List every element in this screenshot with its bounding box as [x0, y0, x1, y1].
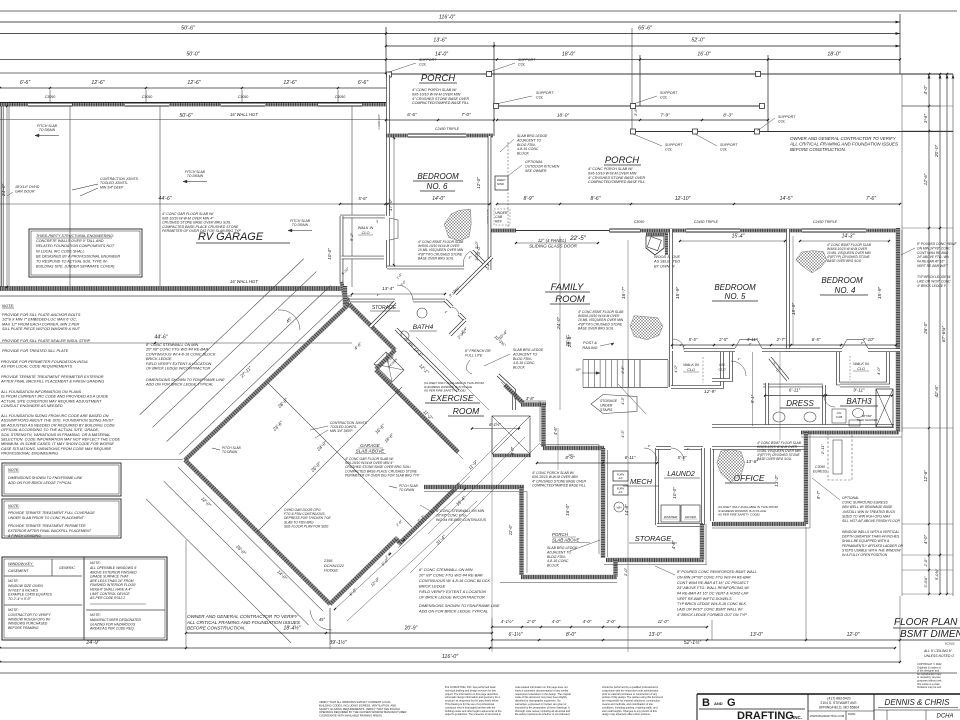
svg-text:CONTINUOUS W/ 4-8-16 CONC BLOC: CONTINUOUS W/ 4-8-16 CONC BLOCK [419, 578, 491, 583]
svg-text:warranties, expressed or impli: warranties, expressed or implied, are gi… [515, 702, 567, 706]
svg-text:conjunction with the respectiv: conjunction with the respective code adm… [602, 688, 658, 692]
svg-text:4'-0″: 4'-0″ [876, 366, 881, 375]
svg-text:REF: REF [495, 219, 503, 223]
svg-text:distorted by reprographic equi: distorted by reprographic equipment. No [515, 699, 561, 703]
svg-text:FLOOR PLAN: FLOOR PLAN [894, 617, 958, 628]
svg-text:EGRESS: EGRESS [813, 470, 828, 474]
svg-text:BLOCK: BLOCK [513, 366, 526, 370]
svg-text:2'-11″: 2'-11″ [820, 443, 825, 454]
svg-text:6'-11″: 6'-11″ [789, 388, 801, 393]
svg-text:BATH3: BATH3 [846, 397, 872, 406]
svg-text:50'-6″: 50'-6″ [181, 26, 196, 32]
svg-text:COL: COL [419, 63, 426, 67]
svg-text:EXERCISE: EXERCISE [431, 393, 474, 403]
svg-text:COL: COL [720, 148, 727, 152]
svg-text:7'-0″: 7'-0″ [461, 112, 471, 118]
svg-text:PROVIDE TERMITE TREATMENT PERI: PROVIDE TERMITE TREATMENT PERIMETER EXTE… [1, 375, 104, 379]
svg-text:BLDG FDN-: BLDG FDN- [513, 357, 533, 361]
svg-text:BEDROOM: BEDROOM [714, 283, 756, 292]
svg-text:SLIDING GLASS DOOR: SLIDING GLASS DOOR [529, 244, 578, 249]
svg-text:8″ POURED CONC REINFORCED BSMT: 8″ POURED CONC REINFORCED BSMT WALL [677, 570, 757, 574]
svg-text:DIMENSIONS SHOWN TO FDN/FRAME: DIMENSIONS SHOWN TO FDN/FRAME LINE [146, 378, 225, 382]
svg-text:ROOM: ROOM [453, 406, 480, 416]
svg-text:ROOM: ROOM [555, 294, 585, 305]
svg-text:SIZED TO WIN RGH OPG MAX: SIZED TO WIN RGH OPG MAX [842, 514, 891, 518]
svg-text:BEFORE FRAMING: BEFORE FRAMING [8, 626, 39, 630]
svg-text:POST &: POST & [583, 341, 597, 345]
svg-text:CONT W/#4 RE-BAR: CONT W/#4 RE-BAR [917, 251, 949, 255]
svg-text:52'-1½″: 52'-1½″ [684, 639, 702, 646]
svg-text:18'-0″: 18'-0″ [827, 52, 840, 58]
svg-text:18'-0″: 18'-0″ [562, 52, 575, 58]
svg-text:PROVIDE FOR SILL PLATE ANCHOR: PROVIDE FOR SILL PLATE ANCHOR BOLTS [2, 313, 81, 317]
svg-text:52'-0″: 52'-0″ [691, 38, 704, 44]
svg-text:MINIMUM. IN SOME CASES, IT MAY: MINIMUM. IN SOME CASES, IT MAY SHOW CODE… [1, 442, 114, 446]
svg-text:ON MIN 24″X8″ CONC FTG W/3-#4: ON MIN 24″X8″ CONC FTG W/3-#4 RE-BAR [677, 575, 751, 579]
svg-text:4″ BRICK LEDGE FORMED OUT ON T: 4″ BRICK LEDGE FORMED OUT ON TYP [677, 613, 747, 617]
svg-text:structure as requested by the: structure as requested by the party list… [445, 699, 499, 703]
svg-text:#4 RE-BAR AT 16″ OC VERT & HOR: #4 RE-BAR AT 16″ OC VERT & HORZ-LAP [677, 592, 749, 596]
svg-text:14'-3″: 14'-3″ [842, 234, 855, 240]
svg-text:& FINISH GRADING: & FINISH GRADING [8, 534, 41, 538]
svg-text:IN A FULLY OPEN POSITION: IN A FULLY OPEN POSITION [842, 553, 888, 557]
svg-text:9'-11″: 9'-11″ [853, 388, 865, 393]
svg-text:G: G [727, 697, 736, 709]
svg-text:WH: WH [617, 506, 623, 510]
svg-text:12'-6″: 12'-6″ [91, 80, 104, 86]
svg-text:CLO: CLO [362, 231, 370, 235]
svg-text:2'-7″: 2'-7″ [776, 337, 786, 342]
svg-text:4″ CONC PORCH SLAB W/: 4″ CONC PORCH SLAB W/ [412, 88, 457, 92]
svg-text:6X6-10/10 W-W-M OVER MIN: 6X6-10/10 W-W-M OVER MIN [412, 92, 461, 96]
svg-text:ACTUAL SITE CONDITION MAY REQU: ACTUAL SITE CONDITION MAY REQUIRE ADJUST… [0, 399, 102, 403]
svg-text:19'-9″: 19'-9″ [791, 303, 797, 316]
svg-text:SILL HGT-44″ ABOVE FINISH FLOO: SILL HGT-44″ ABOVE FINISH FLOOR [842, 519, 901, 523]
svg-text:4'-0″: 4'-0″ [923, 535, 928, 545]
svg-text:STEPS USABLE WITH THE WINDOW: STEPS USABLE WITH THE WINDOW [842, 548, 901, 552]
svg-text:1/2″ø X MIN 7″ EMBEDED-LOC MA: 1/2″ø X MIN 7″ EMBEDED-LOC MAX 6' OC, [2, 318, 77, 322]
svg-text:NOTE:: NOTE: [8, 504, 20, 508]
svg-text:LAID OR W/10″ CONC BSMT WALL W: LAID OR W/10″ CONC BSMT WALL W/ [677, 607, 743, 611]
svg-text:SUPPORT: SUPPORT [419, 58, 437, 62]
svg-text:12'-6″: 12'-6″ [923, 173, 928, 185]
svg-text:15'-9″: 15'-9″ [877, 287, 883, 300]
svg-text:ALL FOUNDATION INFORMATION ON: ALL FOUNDATION INFORMATION ON PLANS [0, 390, 82, 394]
svg-text:8″ CONC STEMWALL ON MIN: 8″ CONC STEMWALL ON MIN [146, 343, 199, 347]
svg-text:3'-6″: 3'-6″ [923, 114, 928, 124]
svg-text:13'-0″: 13'-0″ [750, 632, 763, 638]
svg-text:thorough code review, includin: thorough code review, including all stru… [515, 709, 571, 713]
svg-text:12'-0″: 12'-0″ [847, 632, 860, 638]
svg-text:BRICK LEDGE: BRICK LEDGE [146, 357, 172, 361]
svg-text:2'-0″: 2'-0″ [923, 558, 928, 568]
svg-text:FIELD VERIFY EXTENT & LOCATION: FIELD VERIFY EXTENT & LOCATION [419, 589, 486, 594]
svg-text:TO RESPOND TO ACTUAL SOIL TYPE: TO RESPOND TO ACTUAL SOIL TYPE IN [36, 260, 107, 264]
svg-text:42'-6″: 42'-6″ [934, 385, 940, 398]
svg-text:(417) 883-5420: (417) 883-5420 [827, 697, 850, 701]
svg-text:4'-3″: 4'-3″ [621, 397, 625, 405]
svg-text:4'-8″: 4'-8″ [671, 540, 676, 549]
svg-text:SAFETY GLAZING REQUIREMENTS.: SAFETY GLAZING REQUIREMENTS. VERIFY THAT… [319, 707, 400, 711]
svg-text:MAX 12″ FROM EACH CORNER, MIN: MAX 12″ FROM EACH CORNER, MIN 2 PER [2, 322, 80, 326]
svg-text:intended by the preparation of: intended by the preparation of these dra… [515, 705, 570, 709]
svg-text:DIMENSIONS SHOWN TO FDN/FRAME: DIMENSIONS SHOWN TO FDN/FRAME LINE [419, 603, 500, 608]
svg-text:2'-5″: 2'-5″ [718, 337, 728, 342]
svg-text:RAILING: RAILING [582, 346, 597, 350]
svg-text:DENNIS & CHRIS: DENNIS & CHRIS [885, 698, 951, 707]
svg-text:PORCH: PORCH [605, 155, 639, 166]
svg-text:SELECTION. CODE INFORMATION MA: SELECTION. CODE INFORMATION MAY NOT REFL… [1, 438, 120, 442]
svg-text:C3050: C3050 [142, 95, 153, 99]
svg-text:BUILDING CODES, INCLUDING EGRE: BUILDING CODES, INCLUDING EGRESS, VENTIL… [319, 703, 396, 707]
svg-text:GENERIC: GENERIC [59, 566, 75, 570]
svg-text:NO. 6: NO. 6 [427, 182, 448, 191]
svg-text:means and methods, and coordin: means and methods, and coordination of s… [602, 702, 653, 706]
svg-text:UNDER: UNDER [600, 403, 613, 407]
svg-text:3'-8″: 3'-8″ [526, 396, 535, 401]
svg-text:BEFORE CONSTRUCTION.: BEFORE CONSTRUCTION. [790, 147, 846, 152]
svg-text:4-8-16 CONC: 4-8-16 CONC [513, 361, 535, 365]
svg-text:6″ CONC STEMWALL ON MIN: 6″ CONC STEMWALL ON MIN [436, 509, 485, 513]
svg-text:BEDROOM: BEDROOM [821, 276, 863, 285]
svg-text:PERMANENTLY AFFIXED LADDER OR: PERMANENTLY AFFIXED LADDER OR [842, 544, 903, 548]
svg-text:10'-0″: 10'-0″ [327, 248, 332, 260]
svg-text:C3050: C3050 [238, 95, 249, 99]
svg-text:COL: COL [518, 63, 525, 67]
svg-text:3'-6″: 3'-6″ [621, 366, 625, 374]
svg-text:8'-0″: 8'-0″ [566, 632, 576, 638]
svg-text:4'-1½″: 4'-1½″ [501, 619, 514, 624]
svg-text:NO. 4: NO. 4 [835, 286, 856, 295]
svg-text:116'-0″: 116'-0″ [439, 15, 456, 21]
svg-text:CONTINUOUS W/ 4-8-16 CONC BLOC: CONTINUOUS W/ 4-8-16 CONC BLOCK [146, 352, 216, 356]
svg-text:65'-6″: 65'-6″ [638, 26, 653, 32]
svg-text:7'-10″: 7'-10″ [863, 337, 875, 342]
svg-text:OWNER AND GENERAL CONTRACTOR T: OWNER AND GENERAL CONTRACTOR TO VERIFY [790, 136, 897, 141]
svg-text:5'-0″: 5'-0″ [475, 241, 479, 249]
svg-text:C3050: C3050 [335, 95, 346, 99]
svg-text:PROVIDE FOR SILL PLATE SEALER: PROVIDE FOR SILL PLATE SEALER INSUL STRI… [2, 339, 91, 343]
svg-text:OPENINGS REQUIRED BY THE CHOSE: OPENINGS REQUIRED BY THE CHOSEN WINDOW M… [319, 710, 406, 714]
svg-text:design may adversely affect ot: design may adversely affect other portio… [602, 712, 651, 716]
svg-text:Violators may be sub: Violators may be sub [917, 685, 942, 689]
svg-text:4″ CRUSHED STONE BASE OVER: 4″ CRUSHED STONE BASE OVER [588, 176, 646, 180]
svg-text:project. The information on t: project. The information on this page de… [445, 692, 499, 696]
svg-text:are responsible for material s: are responsible for material selections,… [602, 699, 661, 703]
svg-text:8'-0″: 8'-0″ [565, 455, 575, 460]
svg-text:14'-8″: 14'-8″ [624, 504, 629, 516]
svg-text:BLOCK: BLOCK [547, 564, 560, 568]
svg-text:16'-0″: 16'-0″ [697, 52, 710, 58]
svg-text:C2450 TRIPLE: C2450 TRIPLE [694, 220, 719, 224]
svg-text:SUPPORT: SUPPORT [720, 143, 738, 147]
svg-text:3'-6″: 3'-6″ [633, 107, 638, 116]
svg-text:NOTE:: NOTE: [90, 561, 101, 565]
svg-text:BUILDING SITE. (UNDER SEPARATE: BUILDING SITE. (UNDER SEPARATE COVER) [36, 265, 115, 269]
svg-text:2'-0″: 2'-0″ [623, 567, 628, 577]
svg-text:CLO: CLO [687, 368, 695, 372]
svg-text:CLO: CLO [857, 367, 865, 371]
svg-text:24'-0″: 24'-0″ [1, 184, 7, 198]
svg-text:FIELD VERIFY EXTENT & LOCATION: FIELD VERIFY EXTENT & LOCATION [146, 362, 212, 366]
svg-text:2'-0″: 2'-0″ [526, 619, 536, 624]
svg-text:39'-1½″: 39'-1½″ [329, 639, 347, 646]
svg-text:7'-4″: 7'-4″ [513, 391, 518, 400]
svg-text:ADD ON FOR BRICK LEDGE TYPICAL: ADD ON FOR BRICK LEDGE TYPICAL [7, 481, 72, 485]
svg-text:OPTIONAL: OPTIONAL [525, 160, 543, 164]
svg-text:14'-5″: 14'-5″ [780, 196, 793, 202]
svg-text:RELATED FOUNDATION COMPONENTS: RELATED FOUNDATION COMPONENTS NOT [36, 244, 115, 248]
svg-text:SCALE:: SCALE: [945, 642, 956, 646]
svg-text:STORAGE: STORAGE [372, 305, 397, 311]
svg-text:15'-4″: 15'-4″ [732, 234, 745, 240]
svg-text:WALK IN: WALK IN [853, 362, 869, 366]
svg-text:GARAGE: GARAGE [360, 443, 381, 448]
svg-text:FULL LITE: FULL LITE [465, 354, 483, 358]
svg-text:6'-6″: 6'-6″ [20, 80, 30, 86]
svg-text:UNDER SLAB PRIOR TO CONC PLACE: UNDER SLAB PRIOR TO CONC PLACEMENT [8, 516, 85, 520]
svg-text:4'-0″: 4'-0″ [923, 85, 928, 95]
svg-text:contractor who is thoroughly f: contractor who is thoroughly familiar wi… [445, 705, 496, 709]
svg-text:NOTE:: NOTE: [8, 468, 20, 472]
svg-text:BEDROOM: BEDROOM [417, 172, 459, 181]
svg-text:BRICK LEDGE: BRICK LEDGE [419, 584, 446, 589]
svg-text:20″ X8″ CONC FTG W/2-#4 RE-BAR: 20″ X8″ CONC FTG W/2-#4 RE-BAR [145, 348, 208, 352]
svg-text:WWW.BGDRAFTING.COM: WWW.BGDRAFTING.COM [810, 714, 845, 718]
svg-text:13'-2″: 13'-2″ [774, 475, 779, 487]
svg-text:PROVIDE TERMITE TREATMENT FULL: PROVIDE TERMITE TREATMENT FULL COVERAGE [8, 511, 95, 515]
svg-text:9'-7″: 9'-7″ [816, 490, 821, 499]
svg-text:ADJACENT TO: ADJACENT TO [546, 550, 572, 554]
svg-text:BASE OVER BRG SOIL: BASE OVER BRG SOIL [418, 256, 454, 260]
svg-text:16'-0″: 16'-0″ [565, 504, 570, 516]
svg-text:8″ POURED CONC REINF: 8″ POURED CONC REINF [917, 242, 957, 246]
svg-text:ADJACENT TO: ADJACENT TO [512, 352, 538, 356]
svg-text:C2450 TRIPLE: C2450 TRIPLE [813, 220, 838, 224]
svg-text:13'-4″: 13'-4″ [382, 286, 394, 291]
svg-text:12'-9″: 12'-9″ [704, 389, 716, 394]
svg-text:11'-6″: 11'-6″ [508, 524, 513, 535]
svg-text:ADD ON FOR BRICK LEDGE TYPICAL: ADD ON FOR BRICK LEDGE TYPICAL [418, 608, 488, 613]
svg-text:SLAB ABOVE: SLAB ABOVE [552, 538, 579, 543]
svg-text:AS PER CODE R312.2: AS PER CODE R312.2 [89, 596, 125, 600]
svg-text:6X6-10/10 W-W-M OVER MIN: 6X6-10/10 W-W-M OVER MIN [588, 171, 637, 175]
svg-text:ALL CRITICAL FRAMING AND FOUND: ALL CRITICAL FRAMING AND FOUNDATION ISSU… [789, 141, 898, 146]
svg-text:BASE OVER BRG SOIL: BASE OVER BRG SOIL [757, 457, 792, 461]
svg-text:IN LOCAL IRC CODE SHALL: IN LOCAL IRC CODE SHALL [36, 249, 85, 253]
svg-text:PROVIDE FOR PERIMETER FOUNDATI: PROVIDE FOR PERIMETER FOUNDATION INSUL [1, 360, 88, 364]
svg-text:TO DRAIN: TO DRAIN [399, 488, 415, 492]
svg-text:4-8-16 CONC: 4-8-16 CONC [517, 147, 539, 151]
svg-text:CONC SURROUND EGRESS: CONC SURROUND EGRESS [842, 501, 888, 505]
svg-text:26'-0″: 26'-0″ [923, 322, 928, 335]
svg-text:#4 RE-BAR AT 16″: #4 RE-BAR AT 16″ [917, 260, 945, 264]
svg-text:WALK IN: WALK IN [683, 363, 699, 367]
svg-text:16' WALL HGT: 16' WALL HGT [230, 112, 258, 117]
svg-text:COL: COL [660, 96, 667, 100]
svg-text:18'-4½″: 18'-4½″ [284, 625, 301, 632]
svg-text:AND: AND [714, 701, 723, 706]
svg-text:AREAS AS PER CODE REQ.: AREAS AS PER CODE REQ. [89, 627, 135, 631]
svg-text:VERT RE-BAR W/FT: VERT RE-BAR W/FT [917, 264, 949, 268]
svg-text:BLDG FDN-: BLDG FDN- [517, 143, 537, 147]
svg-text:LAID OR W/10″ CONC: LAID OR W/10″ CONC [917, 279, 951, 283]
svg-text:20″ X8″ CONC FTG W/2-#4 RE-BAR: 20″ X8″ CONC FTG W/2-#4 RE-BAR [418, 573, 483, 578]
svg-text:FAMILY: FAMILY [551, 282, 584, 293]
svg-text:6'-6″: 6'-6″ [358, 80, 368, 86]
svg-text:PROFESSIONAL ENGINEERING: PROFESSIONAL ENGINEERING [1, 452, 58, 456]
svg-text:12'-6″: 12'-6″ [923, 470, 928, 482]
svg-text:SLAB ABOVE: SLAB ABOVE [356, 449, 386, 454]
svg-text:PORCH: PORCH [552, 532, 569, 537]
svg-text:4'-5″: 4'-5″ [621, 430, 625, 438]
svg-text:building codes and other legal: building codes and other legal requireme… [445, 709, 502, 713]
svg-text:-INSTALL WIN IN TREATED BUCK: -INSTALL WIN IN TREATED BUCK [842, 510, 896, 514]
svg-text:50'-0″: 50'-0″ [186, 52, 199, 58]
svg-text:C3050: C3050 [634, 220, 645, 224]
svg-text:TO 2'-4″ x 5'-0″: TO 2'-4″ x 5'-0″ [8, 597, 31, 601]
svg-text:8'-3″: 8'-3″ [723, 113, 733, 119]
svg-text:VERIFY THAT ALL WINDOWS SATISF: VERIFY THAT ALL WINDOWS SATISFY CURRENT … [319, 700, 391, 704]
svg-text:AFTER FINAL BACKFILL PLACEMENT: AFTER FINAL BACKFILL PLACEMENT & FINISH … [0, 380, 104, 384]
svg-text:6'-1½″: 6'-1½″ [489, 422, 501, 427]
svg-text:EXTERIOR AFTER FINAL BACKFILL: EXTERIOR AFTER FINAL BACKFILL PLACEMENT [8, 529, 92, 533]
svg-text:18'-0″: 18'-0″ [557, 113, 570, 119]
svg-text:imply a consistent documentati: imply a consistent documentation of any … [515, 688, 569, 692]
svg-text:67'-6¾″: 67'-6¾″ [941, 326, 947, 343]
svg-text:SINK: SINK [497, 182, 505, 186]
svg-text:LIN: LIN [719, 363, 725, 367]
svg-text:DRYER: DRYER [685, 515, 696, 519]
svg-text:CURB OUT: CURB OUT [377, 114, 381, 129]
svg-text:SLAB BRG LEDGE: SLAB BRG LEDGE [513, 348, 544, 352]
svg-text:NOTE:: NOTE: [8, 608, 19, 612]
svg-text:A/C: A/C [617, 490, 622, 494]
svg-text:life-safety requirements wheth: life-safety requirements whether or not … [515, 712, 570, 716]
svg-text:WOOD STOVE: WOOD STOVE [654, 255, 681, 259]
svg-text:12° (4 PANEL): 12° (4 PANEL) [538, 238, 567, 243]
svg-text:WASHER: WASHER [664, 515, 678, 519]
svg-text:TO DRAIN: TO DRAIN [292, 223, 309, 227]
svg-text:AS SELECTED: AS SELECTED [653, 260, 680, 264]
svg-text:OPTIONAL: OPTIONAL [842, 496, 859, 500]
svg-text:NOTE:: NOTE: [2, 303, 14, 308]
svg-text:NOTE:: NOTE: [90, 613, 101, 617]
svg-text:AS PER FIRE SAFETY CODE): AS PER FIRE SAFETY CODE) [717, 513, 760, 517]
svg-text:FURN: FURN [617, 473, 624, 477]
svg-text:12'-6″: 12'-6″ [187, 80, 200, 86]
svg-text:requirement elsewhere in the d: requirement elsewhere in the design. The… [515, 692, 571, 696]
svg-text:45°: 45° [319, 617, 326, 622]
svg-text:TYP BRICK LEDGE W/4-8-16 CONC: TYP BRICK LEDGE W/4-8-16 CONC BLK [677, 602, 746, 606]
svg-text:technical drafting and design: technical drafting and design services f… [445, 688, 497, 692]
svg-text:4″ BRICK LEDGE F: 4″ BRICK LEDGE F [917, 284, 947, 288]
svg-text:UP: UP [576, 368, 581, 372]
svg-text:PERIMETER OF OVER DIG FOR SLAB: PERIMETER OF OVER DIG FOR SLAB BRG TYP [162, 229, 242, 233]
svg-text:CLO: CLO [719, 368, 726, 372]
svg-text:24'-0″: 24'-0″ [556, 317, 562, 331]
svg-text:5'-5″: 5'-5″ [678, 455, 687, 460]
svg-text:C3050: C3050 [815, 465, 825, 469]
svg-text:15'-9″: 15'-9″ [675, 287, 681, 300]
svg-text:STAIRS: STAIRS [600, 408, 613, 412]
svg-text:scale of this document may hav: scale of this document may have been sli… [515, 695, 568, 699]
svg-text:3'-0″: 3'-0″ [475, 253, 479, 261]
svg-text:SLAB BRG LEDGE: SLAB BRG LEDGE [517, 134, 548, 138]
svg-text:SPRINGFIELD, MO 65804: SPRINGFIELD, MO 65804 [819, 706, 859, 710]
svg-text:SUPPORT: SUPPORT [778, 115, 796, 119]
svg-text:OFFICIAL ACCORDING TO THE ACTU: OFFICIAL ACCORDING TO THE ACTUAL SITE, G… [1, 428, 99, 432]
svg-text:4″ CONC PORCH SLAB W/: 4″ CONC PORCH SLAB W/ [588, 167, 633, 171]
svg-text:ALL FOUNDATION SIZING FROM IRC: ALL FOUNDATION SIZING FROM IRC CODE ARE … [0, 414, 109, 418]
svg-text:A/C: A/C [617, 476, 622, 480]
svg-text:SOIL STRENGTH, VARIATIONS IN F: SOIL STRENGTH, VARIATIONS IN FRAMING, OR… [1, 433, 110, 437]
svg-text:DCHA1G22: DCHA1G22 [324, 564, 345, 568]
svg-text:BE DESIGNED BY A PROFESSIONAL: BE DESIGNED BY A PROFESSIONAL ENGINEER [36, 254, 121, 258]
svg-text:AS PER LOCAL CODE REQUIREMENTS: AS PER LOCAL CODE REQUIREMENTS [0, 365, 72, 369]
svg-text:COL: COL [778, 120, 785, 124]
svg-text:OUTDOOR KITCHEN: OUTDOOR KITCHEN [525, 164, 560, 168]
svg-text:13'-0″: 13'-0″ [649, 632, 662, 638]
svg-text:COORDINATE WITH AVAILABLE FRAM: COORDINATE WITH AVAILABLE FRAMING AREAS. [319, 714, 383, 718]
svg-text:7'-6″: 7'-6″ [866, 196, 876, 202]
svg-text:INC.: INC. [793, 715, 802, 720]
svg-text:6'-5″: 6'-5″ [812, 337, 821, 342]
svg-text:FURN: FURN [617, 487, 624, 491]
svg-text:5'-2″: 5'-2″ [349, 232, 354, 241]
svg-text:24″ ABOVE FTG- WALL REINFORCI: 24″ ABOVE FTG- WALL REINFORCING W/ [676, 586, 750, 590]
svg-text:COL: COL [665, 148, 672, 152]
svg-text:DRESS: DRESS [786, 399, 814, 408]
svg-text:9'-0″: 9'-0″ [510, 446, 515, 455]
svg-text:TO DRAIN: TO DRAIN [222, 450, 238, 454]
svg-text:PORCH: PORCH [421, 73, 455, 84]
svg-text:BLOCK: BLOCK [517, 152, 530, 156]
svg-text:ASSUMPTIONS ABOUT THE SITE. FO: ASSUMPTIONS ABOUT THE SITE. FOUNDATION S… [0, 419, 114, 423]
svg-text:BLDG FDN-: BLDG FDN- [547, 555, 567, 559]
svg-text:4'-0″: 4'-0″ [552, 619, 561, 624]
svg-text:MIN 3/4″ DEEP: MIN 3/4″ DEEP [100, 185, 124, 189]
svg-text:11'-0″: 11'-0″ [658, 619, 669, 624]
svg-text:SLAB BRG LEDGE: SLAB BRG LEDGE [547, 546, 578, 550]
svg-text:8'-9″: 8'-9″ [524, 196, 534, 202]
svg-text:20'-9″: 20'-9″ [404, 626, 418, 632]
svg-text:WIN WELL W/ DRAINAGE BASE: WIN WELL W/ DRAINAGE BASE [842, 505, 893, 509]
svg-text:12'-10″: 12'-10″ [675, 196, 691, 202]
svg-text:SEE OWNER: SEE OWNER [525, 169, 547, 173]
svg-text:WINDOW WELLS WITH A VERTICAL: WINDOW WELLS WITH A VERTICAL [842, 530, 899, 534]
svg-text:TO DRAIN: TO DRAIN [39, 128, 56, 132]
svg-text:22'-5″: 22'-5″ [569, 235, 587, 242]
svg-text:DATE:: DATE: [848, 712, 856, 716]
svg-text:24'-9″: 24'-9″ [85, 640, 99, 646]
svg-text:6'-11″: 6'-11″ [625, 455, 636, 460]
svg-text:UNLESS NOTED O: UNLESS NOTED O [924, 654, 954, 658]
svg-text:4-8-16 CONC: 4-8-16 CONC [547, 559, 569, 563]
svg-text:44'-6″: 44'-6″ [154, 335, 167, 341]
svg-text:MIN 3/4″ DEEP: MIN 3/4″ DEEP [330, 429, 353, 433]
svg-text:8'-6″: 8'-6″ [591, 196, 601, 202]
svg-text:ALL 9' CEILING H: ALL 9' CEILING H [923, 649, 952, 653]
svg-text:PROVIDE FOR TREATED SILL PLATE: PROVIDE FOR TREATED SILL PLATE [2, 349, 69, 353]
svg-text:BASE OVER BRG SOIL: BASE OVER BRG SOIL [827, 259, 862, 263]
svg-text:NOTE:: NOTE: [8, 579, 19, 583]
svg-text:code-related information on th: code-related information on this page do… [515, 685, 568, 689]
svg-text:HODGE: HODGE [324, 569, 338, 573]
svg-text:TYP BRICK LEDGE W: TYP BRICK LEDGE W [917, 275, 951, 279]
svg-text:5'-5″: 5'-5″ [689, 337, 698, 342]
svg-text:SEE FLOOR PLAN FOR SIZE: SEE FLOOR PLAN FOR SIZE [284, 524, 329, 528]
